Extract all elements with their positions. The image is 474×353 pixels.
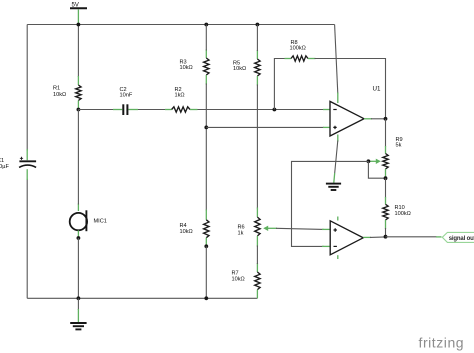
wire: output node to signal out flag xyxy=(386,236,437,238)
node: junction U1b output / R10 / signal out xyxy=(384,235,388,239)
wire: R3/R4 node to U1 non-inverting input (plus wire) xyxy=(206,126,324,128)
wire: R8 left branch (minus node up) xyxy=(274,59,285,110)
wire: output junction down to R9 xyxy=(385,119,387,147)
node: junction 5V rail / R1 column xyxy=(77,23,81,27)
wire: R1 column (5V rail to R1) xyxy=(77,25,79,78)
wire: R8 right to output column xyxy=(315,59,386,119)
net label: signal out xyxy=(442,232,474,242)
node: junction R3 column / U1 plus wire xyxy=(204,126,208,130)
svg-text:5k: 5k xyxy=(396,143,402,149)
capacitor C2 10nF xyxy=(113,87,138,115)
resistor R3 10k xyxy=(180,50,210,85)
wire: R9 bottom to R10 xyxy=(385,178,387,198)
node: junction R4 bottom wire join xyxy=(204,244,208,248)
wire: top 5V rail xyxy=(27,24,334,26)
node: junction top rail / R3 column xyxy=(204,23,208,27)
resistor R8 100k xyxy=(285,40,316,61)
ground: below bottom rail xyxy=(70,323,86,329)
node: junction R9 bottom / R10 top xyxy=(384,176,388,180)
svg-text:100kΩ: 100kΩ xyxy=(395,211,411,217)
wire: C2 to R2 xyxy=(138,109,165,111)
capacitor C1 (polarized, on left column) xyxy=(0,149,36,180)
wire: R1/MIC node to C2 xyxy=(78,109,113,111)
potentiometer R9 5k xyxy=(368,137,402,178)
wire: 5V rail corner to U1 V+ pin (slanted) xyxy=(335,25,338,94)
svg-text:1kΩ: 1kΩ xyxy=(175,93,185,99)
node: junction minus wire / R8 left branch xyxy=(273,108,277,112)
wire: feedback from wiper node to U1b inverting input xyxy=(292,161,369,246)
resistor R7 10k xyxy=(232,263,261,298)
wire: R10 bottom to output node xyxy=(385,228,387,237)
wire: mic node to R1/C2 junction xyxy=(77,110,79,205)
wire: R2 to U1 inverting input (minus wire) xyxy=(198,109,325,111)
wire: U1b output to output node xyxy=(370,236,386,239)
ground: near U1 xyxy=(326,184,341,190)
wire: R3 column upper xyxy=(205,25,207,51)
resistor R1 10k xyxy=(53,76,81,109)
svg-text:10kΩ: 10kΩ xyxy=(180,65,193,71)
wire: R5 column between R5 and R6 xyxy=(256,85,258,209)
node: junction below MIC1 xyxy=(77,236,81,240)
svg-text:fritzing: fritzing xyxy=(419,335,465,351)
node: junction R9 wiper xyxy=(367,159,371,163)
node: junction R1 bottom / C2 wire / MIC1 xyxy=(77,108,81,112)
wire: R6 wiper to op-amp U1b plus input xyxy=(276,228,324,229)
wire: bottom ground rail xyxy=(27,297,257,299)
svg-text:10kΩ: 10kΩ xyxy=(232,276,245,282)
node: junction U1 output / R8 / R9 xyxy=(384,117,388,121)
resistor R10 100k xyxy=(383,197,411,229)
svg-text:MIC1: MIC1 xyxy=(94,219,107,225)
svg-text:1k: 1k xyxy=(238,230,244,236)
svg-text:U1: U1 xyxy=(373,86,381,93)
wire: R4 to bottom rail xyxy=(205,246,207,298)
svg-text:10kΩ: 10kΩ xyxy=(53,92,66,98)
node: junction R4 column / bottom rail xyxy=(204,296,208,300)
op-amp U1 (unit A) xyxy=(323,86,381,142)
wire: R3 column between R3 and R4 xyxy=(205,84,207,211)
svg-text:signal out: signal out xyxy=(449,236,474,242)
wire: U1 V- pin to ground (slanted) xyxy=(335,141,338,174)
svg-text:10kΩ: 10kΩ xyxy=(180,229,193,235)
svg-text:10nF: 10nF xyxy=(120,93,133,99)
node: junction top rail / R5 column xyxy=(256,23,260,27)
microphone MIC1 xyxy=(70,204,107,238)
wire: U1 output to junction xyxy=(371,118,386,120)
svg-text:10µF: 10µF xyxy=(0,164,9,170)
wire: R6/R7 link xyxy=(256,246,258,265)
svg-text:R1: R1 xyxy=(53,86,60,92)
op-amp U1 (unit B) xyxy=(322,217,371,260)
wire: MIC1 to bottom rail xyxy=(77,238,79,298)
node: junction bottom rail / ground stem xyxy=(77,296,81,300)
resistor R4 10k xyxy=(180,210,210,247)
wire: wiper junction L-link to R9 bottom xyxy=(368,161,385,178)
resistor R5 10k xyxy=(233,50,260,86)
wire: left column xyxy=(26,25,28,151)
potentiometer R6 1k xyxy=(238,208,278,247)
resistor R2 1k xyxy=(165,87,198,112)
svg-text:10kΩ: 10kΩ xyxy=(233,66,246,72)
wire: ground stem below bottom rail xyxy=(77,298,79,310)
supply 5V xyxy=(70,3,87,25)
wire: R5 column upper xyxy=(256,25,258,52)
svg-text:100kΩ: 100kΩ xyxy=(290,46,306,52)
